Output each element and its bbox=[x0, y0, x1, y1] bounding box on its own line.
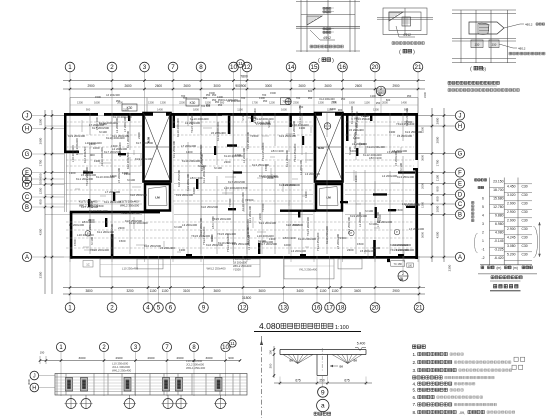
svg-text:250: 250 bbox=[475, 43, 480, 47]
svg-text:8.: 8. bbox=[413, 410, 417, 415]
detail 3 hatched core bbox=[478, 23, 489, 34]
svg-text:Y1500: Y1500 bbox=[228, 198, 232, 207]
svg-text:3: 3 bbox=[143, 64, 147, 71]
table storey numbers bbox=[475, 179, 487, 181]
svg-text:6.980: 6.980 bbox=[495, 222, 504, 226]
svg-text:1300: 1300 bbox=[389, 130, 396, 134]
svg-text:A: A bbox=[25, 255, 29, 261]
svg-text:KL1 200x400: KL1 200x400 bbox=[285, 150, 289, 167]
svg-text:h=100: h=100 bbox=[365, 209, 374, 213]
svg-text:900: 900 bbox=[90, 153, 95, 157]
bottom dimension lines bbox=[63, 287, 425, 289]
svg-text:700: 700 bbox=[296, 96, 301, 100]
svg-text:1.: 1. bbox=[413, 352, 417, 357]
bottom axis bubbles bbox=[65, 303, 75, 313]
svg-text:1500: 1500 bbox=[241, 186, 248, 190]
svg-text:5.: 5. bbox=[413, 388, 417, 393]
svg-text:1:100: 1:100 bbox=[335, 325, 349, 331]
detail 1 caption bbox=[310, 45, 343, 48]
svg-text:1000: 1000 bbox=[284, 243, 291, 247]
svg-text:1300: 1300 bbox=[421, 202, 425, 208]
svg-text:8: 8 bbox=[199, 64, 203, 71]
svg-text:1C: 1C bbox=[86, 263, 89, 267]
perimeter wall right bbox=[415, 113, 418, 160]
svg-text:12: 12 bbox=[244, 64, 251, 71]
svg-text:KL10 200x400: KL10 200x400 bbox=[393, 243, 411, 247]
svg-text:800: 800 bbox=[436, 186, 440, 191]
svg-text:h=100: h=100 bbox=[127, 178, 136, 182]
svg-text:Y1500: Y1500 bbox=[261, 203, 265, 212]
svg-text:3100: 3100 bbox=[183, 289, 190, 293]
svg-text:L3 200x400: L3 200x400 bbox=[182, 223, 198, 227]
svg-text:5: 5 bbox=[482, 205, 484, 209]
T detail axis bubble 9 bbox=[321, 376, 323, 387]
svg-text:9: 9 bbox=[202, 305, 206, 312]
svg-text:1300: 1300 bbox=[373, 108, 379, 112]
svg-text:3800: 3800 bbox=[85, 289, 92, 293]
svg-text:4.245: 4.245 bbox=[507, 236, 516, 240]
svg-text:LB h=100: LB h=100 bbox=[271, 149, 284, 153]
svg-text:KL10 200x400: KL10 200x400 bbox=[113, 115, 132, 119]
section symbol in right core bbox=[324, 123, 331, 130]
svg-text:2600: 2600 bbox=[298, 84, 305, 88]
perimeter wall top bbox=[64, 113, 98, 116]
svg-text:350: 350 bbox=[218, 103, 223, 107]
detail 3 beam shape bbox=[469, 22, 504, 34]
svg-text:16: 16 bbox=[314, 305, 321, 312]
left stair core bbox=[144, 113, 171, 182]
svg-text:1: 1 bbox=[68, 64, 72, 71]
svg-text:350: 350 bbox=[206, 103, 211, 107]
detail 3 leaders bbox=[504, 24, 524, 28]
svg-text:7: 7 bbox=[171, 64, 175, 71]
svg-text:J: J bbox=[33, 374, 36, 380]
axis bubble 11 bbox=[237, 60, 245, 68]
svg-text:2600: 2600 bbox=[39, 137, 43, 144]
balcony below A right bbox=[338, 259, 362, 269]
svg-text:2300: 2300 bbox=[293, 101, 299, 105]
svg-text:300: 300 bbox=[269, 363, 273, 368]
svg-text:21: 21 bbox=[415, 64, 422, 71]
svg-text:2: 2 bbox=[402, 272, 404, 276]
svg-text:KL2 200x500: KL2 200x500 bbox=[353, 132, 357, 149]
svg-text:LB h=100: LB h=100 bbox=[283, 236, 296, 240]
box 7040 bbox=[281, 98, 291, 105]
table footer bbox=[480, 264, 532, 266]
svg-text:4Φ12: 4Φ12 bbox=[323, 36, 331, 40]
svg-text:17: 17 bbox=[326, 305, 333, 312]
svg-text:KL2 200x500: KL2 200x500 bbox=[83, 146, 87, 163]
svg-text:Y1500: Y1500 bbox=[250, 134, 259, 138]
svg-text:-3.225: -3.225 bbox=[494, 247, 504, 251]
svg-text:Φ8: Φ8 bbox=[289, 359, 293, 363]
svg-text:KL10 200x400: KL10 200x400 bbox=[298, 237, 316, 241]
svg-text:KL6 250x500: KL6 250x500 bbox=[130, 193, 147, 197]
svg-text:C30: C30 bbox=[521, 210, 527, 214]
svg-text:1100: 1100 bbox=[436, 174, 440, 181]
svg-text:18: 18 bbox=[338, 305, 345, 312]
annotation box K30 bbox=[122, 104, 137, 111]
svg-text:1500: 1500 bbox=[73, 239, 77, 246]
svg-text:100: 100 bbox=[269, 350, 273, 355]
svg-text:2600: 2600 bbox=[148, 356, 155, 360]
beam label double rows bbox=[79, 200, 140, 208]
svg-text:KL12 200x400: KL12 200x400 bbox=[121, 211, 140, 215]
svg-text:4200: 4200 bbox=[39, 228, 43, 235]
T detail stem bbox=[316, 355, 318, 376]
balcony below A mid bbox=[284, 259, 334, 279]
upper boundary line bbox=[70, 97, 418, 99]
svg-text:350: 350 bbox=[212, 93, 217, 97]
svg-text:KL1 200x400: KL1 200x400 bbox=[76, 177, 93, 181]
svg-text:180: 180 bbox=[408, 264, 413, 267]
svg-text:700: 700 bbox=[181, 94, 186, 98]
svg-text:20: 20 bbox=[372, 64, 379, 71]
svg-text:12: 12 bbox=[240, 305, 247, 312]
svg-text:2600: 2600 bbox=[355, 84, 362, 88]
svg-text:L5 200x400: L5 200x400 bbox=[211, 131, 226, 135]
svg-text:H: H bbox=[32, 386, 36, 392]
svg-text:L7 200x400: L7 200x400 bbox=[409, 227, 425, 231]
bottom axis stems bbox=[70, 256, 419, 303]
svg-text:4200: 4200 bbox=[436, 231, 440, 238]
svg-text:21: 21 bbox=[416, 305, 423, 312]
svg-text:YKL3 250x400: YKL3 250x400 bbox=[293, 143, 297, 162]
svg-text:KL10 200x400: KL10 200x400 bbox=[199, 145, 203, 163]
below A boxes right bbox=[391, 261, 405, 267]
svg-text:6: 6 bbox=[482, 196, 484, 200]
svg-text:250: 250 bbox=[299, 105, 304, 109]
svg-text:1300: 1300 bbox=[186, 150, 193, 154]
svg-text:4: 4 bbox=[482, 213, 484, 217]
svg-text:600: 600 bbox=[308, 89, 313, 93]
svg-text:2200: 2200 bbox=[179, 101, 185, 105]
notes end boxes bbox=[514, 357, 518, 361]
svg-text:G: G bbox=[25, 152, 30, 158]
svg-text:F: F bbox=[25, 171, 29, 177]
svg-text:7C 180: 7C 180 bbox=[394, 262, 403, 266]
svg-text:2: 2 bbox=[482, 230, 484, 234]
svg-text:7040: 7040 bbox=[282, 101, 288, 104]
right lift shaft bbox=[316, 184, 342, 211]
inner top dimension band bbox=[77, 101, 407, 105]
svg-text:3600: 3600 bbox=[213, 289, 220, 293]
svg-text:L2 200x400: L2 200x400 bbox=[299, 159, 303, 175]
svg-text:KL12 200x400: KL12 200x400 bbox=[89, 209, 108, 213]
svg-text:-0.145: -0.145 bbox=[494, 239, 504, 243]
notes under detail 3 bbox=[448, 81, 499, 84]
svg-text:2900: 2900 bbox=[436, 117, 440, 124]
svg-text:L10 200x400: L10 200x400 bbox=[71, 145, 75, 162]
svg-text:700: 700 bbox=[241, 96, 246, 100]
svg-text:1250: 1250 bbox=[39, 187, 43, 194]
svg-text:3600: 3600 bbox=[258, 289, 265, 293]
svg-text:KL9 200x400: KL9 200x400 bbox=[176, 193, 193, 197]
svg-text:KL10 200x400: KL10 200x400 bbox=[350, 106, 354, 124]
svg-text:h=100: h=100 bbox=[258, 239, 266, 243]
svg-text:G: G bbox=[458, 152, 463, 158]
svg-text:11: 11 bbox=[230, 341, 235, 346]
detail name circle a bbox=[317, 399, 329, 411]
top axis grid lines bbox=[70, 72, 418, 262]
svg-text:600: 600 bbox=[381, 91, 386, 95]
room callout circles bbox=[85, 231, 90, 236]
section mark right top bbox=[376, 86, 386, 96]
svg-text:2: 2 bbox=[380, 87, 382, 91]
svg-text:5.200: 5.200 bbox=[507, 253, 516, 257]
svg-text:-09,: -09, bbox=[459, 411, 465, 415]
svg-text:2900: 2900 bbox=[116, 356, 123, 360]
svg-text:-6.420: -6.420 bbox=[494, 256, 504, 260]
svg-text:2300: 2300 bbox=[258, 213, 262, 220]
svg-text:1300: 1300 bbox=[77, 101, 83, 105]
svg-text:3.020: 3.020 bbox=[507, 193, 516, 197]
svg-text:YKL5 250x400: YKL5 250x400 bbox=[233, 257, 251, 261]
svg-text:20: 20 bbox=[372, 305, 379, 312]
svg-text:2000: 2000 bbox=[421, 183, 425, 189]
top axis bubbles bbox=[65, 62, 75, 72]
svg-text:KL10 200x400: KL10 200x400 bbox=[218, 241, 236, 245]
svg-text:1500: 1500 bbox=[357, 242, 364, 246]
dense label cluster below A bbox=[233, 257, 252, 272]
svg-text:K30: K30 bbox=[190, 101, 196, 105]
svg-text:F: F bbox=[458, 171, 462, 177]
svg-text:h=100: h=100 bbox=[267, 120, 271, 128]
svg-text:2.900: 2.900 bbox=[507, 227, 516, 231]
svg-text:2.900: 2.900 bbox=[507, 210, 516, 214]
svg-text:KL10 200x400: KL10 200x400 bbox=[176, 118, 180, 137]
svg-text:12.780: 12.780 bbox=[493, 205, 503, 209]
svg-text:900: 900 bbox=[86, 108, 91, 112]
svg-text:3400: 3400 bbox=[354, 289, 361, 293]
svg-text:L3 200x400: L3 200x400 bbox=[292, 120, 296, 136]
strip left axis J H bbox=[30, 371, 39, 380]
svg-text:6.: 6. bbox=[413, 395, 417, 400]
svg-text:1200: 1200 bbox=[269, 101, 275, 105]
svg-text:2600: 2600 bbox=[155, 84, 162, 88]
svg-text:3600: 3600 bbox=[421, 155, 425, 161]
svg-text:14: 14 bbox=[288, 64, 295, 71]
svg-text:1300: 1300 bbox=[94, 159, 101, 163]
core top door gap left bbox=[153, 113, 166, 116]
svg-text:15: 15 bbox=[311, 64, 318, 71]
svg-text:3000: 3000 bbox=[213, 84, 220, 88]
svg-text:J: J bbox=[459, 114, 462, 120]
svg-text:KL1 200x400: KL1 200x400 bbox=[97, 230, 114, 234]
svg-text:KL7 200x500: KL7 200x500 bbox=[228, 180, 245, 184]
svg-text:KL6 250x500: KL6 250x500 bbox=[201, 205, 218, 209]
svg-text:4.: 4. bbox=[413, 381, 417, 386]
svg-text:1300: 1300 bbox=[299, 126, 306, 130]
svg-text:3000: 3000 bbox=[265, 84, 272, 88]
svg-text:L3 200x400: L3 200x400 bbox=[115, 117, 119, 133]
svg-text:h=100: h=100 bbox=[99, 130, 107, 134]
svg-text:(m): (m) bbox=[513, 266, 518, 270]
svg-text:WKL2 350x500: WKL2 350x500 bbox=[120, 204, 140, 208]
svg-text:550: 550 bbox=[39, 179, 43, 184]
detail drawing 1 frame bbox=[296, 0, 360, 52]
T detail center leader bbox=[330, 365, 338, 367]
detail 1 rebar labels bbox=[323, 7, 331, 9]
table caption line 2 bbox=[494, 285, 519, 288]
svg-text:7800: 7800 bbox=[240, 75, 248, 79]
interior partition lines bbox=[90, 113, 403, 254]
svg-text:E: E bbox=[458, 182, 462, 188]
svg-text:KL2 200x500: KL2 200x500 bbox=[262, 175, 279, 179]
svg-text:L7 200x400: L7 200x400 bbox=[181, 144, 197, 148]
svg-text:KL2 200x500: KL2 200x500 bbox=[126, 152, 130, 169]
horizontal axis lines bbox=[45, 116, 455, 258]
svg-text:L7 200x400: L7 200x400 bbox=[376, 211, 380, 227]
svg-text:KL9 200x400: KL9 200x400 bbox=[135, 157, 152, 161]
perimeter wall left lower bbox=[70, 212, 73, 259]
svg-text:KL4 200x400: KL4 200x400 bbox=[222, 98, 238, 102]
svg-text:2350: 2350 bbox=[39, 271, 43, 278]
svg-text:4: 4 bbox=[146, 305, 150, 312]
svg-text:5: 5 bbox=[157, 305, 161, 312]
svg-text:350: 350 bbox=[308, 96, 313, 100]
svg-text:675: 675 bbox=[344, 379, 350, 383]
detail drawing 3 frame bbox=[452, 10, 516, 63]
svg-text:18.700: 18.700 bbox=[493, 188, 503, 192]
svg-text:WKL2 250x400: WKL2 250x400 bbox=[112, 369, 132, 373]
svg-text:1100: 1100 bbox=[332, 289, 339, 293]
svg-text:900: 900 bbox=[241, 84, 247, 88]
svg-text:1000: 1000 bbox=[93, 146, 100, 150]
svg-text:1300: 1300 bbox=[160, 101, 166, 105]
svg-text:C30: C30 bbox=[521, 236, 527, 240]
section mark right bottom bbox=[398, 271, 408, 281]
svg-text:700: 700 bbox=[262, 93, 267, 97]
svg-text:900: 900 bbox=[338, 108, 343, 112]
svg-text:LM: LM bbox=[155, 196, 160, 200]
svg-text:16: 16 bbox=[339, 64, 346, 71]
svg-text:5.400: 5.400 bbox=[357, 342, 366, 346]
svg-text:2300: 2300 bbox=[224, 160, 231, 164]
svg-text:KL3 250x400: KL3 250x400 bbox=[172, 141, 176, 158]
svg-text:KL6 250x500: KL6 250x500 bbox=[286, 223, 303, 227]
upper band extra annotations bbox=[95, 89, 412, 112]
svg-text:1500: 1500 bbox=[95, 95, 101, 99]
svg-text:h=100: h=100 bbox=[372, 246, 381, 250]
svg-text:900: 900 bbox=[404, 108, 409, 112]
svg-text:1300: 1300 bbox=[370, 94, 376, 98]
svg-text:L10 200x400: L10 200x400 bbox=[224, 186, 241, 190]
left dimension column bbox=[44, 110, 46, 294]
perimeter wall left upper bbox=[64, 113, 67, 153]
svg-text:2900: 2900 bbox=[392, 84, 399, 88]
svg-text:13: 13 bbox=[280, 305, 287, 312]
notes block header bbox=[413, 345, 426, 348]
svg-text:2600: 2600 bbox=[177, 356, 184, 360]
svg-text:2300: 2300 bbox=[347, 248, 354, 252]
svg-text:1300: 1300 bbox=[148, 101, 154, 105]
svg-text:10: 10 bbox=[222, 345, 229, 351]
detail 2 haunch wedge bbox=[389, 12, 403, 21]
svg-text:H: H bbox=[25, 127, 29, 133]
svg-text:J: J bbox=[26, 114, 29, 120]
svg-text:YKL5 200x400: YKL5 200x400 bbox=[212, 217, 231, 221]
svg-text:1300: 1300 bbox=[304, 191, 308, 198]
svg-text:YKL3 250x400: YKL3 250x400 bbox=[299, 268, 318, 272]
svg-text:L10 200x400: L10 200x400 bbox=[75, 138, 79, 155]
svg-text:L10 200x400: L10 200x400 bbox=[402, 202, 419, 206]
detail drawing 2 frame bbox=[383, 8, 427, 35]
detail 2 leader and caption bbox=[396, 26, 415, 37]
svg-text:L3 200x400: L3 200x400 bbox=[305, 172, 321, 176]
svg-text:C30: C30 bbox=[521, 244, 527, 248]
dense cluster annotations bbox=[83, 106, 415, 252]
svg-text:1400: 1400 bbox=[157, 108, 163, 112]
svg-text:2600: 2600 bbox=[124, 84, 131, 88]
svg-text:KL6 250x500: KL6 250x500 bbox=[144, 244, 161, 248]
svg-text:L5 200x400: L5 200x400 bbox=[336, 233, 340, 249]
svg-text:L5 200x400: L5 200x400 bbox=[349, 128, 364, 132]
svg-text:KL10 200x400: KL10 200x400 bbox=[106, 136, 125, 140]
svg-text:2300: 2300 bbox=[137, 132, 141, 139]
svg-text:1900: 1900 bbox=[349, 101, 355, 105]
svg-text:(m): (m) bbox=[497, 266, 502, 270]
strip dimension line bbox=[40, 360, 240, 362]
svg-text:1300: 1300 bbox=[318, 101, 324, 105]
svg-text:3): 3) bbox=[482, 67, 486, 72]
svg-text:KL1 200x400: KL1 200x400 bbox=[104, 200, 121, 204]
strip body bbox=[55, 374, 247, 396]
svg-text:WKL2 250x400: WKL2 250x400 bbox=[233, 264, 252, 268]
inner second dim band bbox=[86, 108, 409, 112]
svg-text:B: B bbox=[25, 205, 29, 211]
svg-text:2600: 2600 bbox=[183, 84, 190, 88]
svg-text:7.: 7. bbox=[413, 402, 417, 407]
table caption line 1 bbox=[491, 276, 522, 279]
svg-text:1300: 1300 bbox=[122, 171, 129, 175]
svg-text:1500: 1500 bbox=[119, 239, 126, 243]
strip pile symbols bbox=[70, 395, 72, 409]
svg-text:WKL1 250x400: WKL1 250x400 bbox=[186, 366, 206, 370]
svg-text:1750: 1750 bbox=[39, 159, 43, 166]
svg-text:2: 2 bbox=[110, 64, 114, 71]
svg-text:h=100: h=100 bbox=[198, 164, 206, 168]
svg-text:1000: 1000 bbox=[436, 205, 440, 212]
T detail right rebar fan bbox=[332, 355, 362, 364]
left lift shaft bbox=[145, 184, 170, 211]
svg-text:900: 900 bbox=[83, 169, 88, 173]
svg-text:1100: 1100 bbox=[364, 101, 370, 105]
svg-text:L10 250x460: L10 250x460 bbox=[122, 267, 139, 271]
svg-text:4.450: 4.450 bbox=[507, 185, 516, 189]
svg-text:2.900: 2.900 bbox=[507, 219, 516, 223]
T detail left rebar fan bbox=[283, 355, 313, 364]
svg-text:C30: C30 bbox=[521, 193, 527, 197]
right stair core bbox=[315, 113, 343, 182]
left axis bubbles bbox=[22, 111, 31, 120]
svg-text:L5 200x400: L5 200x400 bbox=[117, 167, 121, 183]
svg-text:2000: 2000 bbox=[436, 136, 440, 143]
svg-text:Φ8: Φ8 bbox=[339, 364, 343, 368]
svg-text:950: 950 bbox=[39, 199, 43, 204]
svg-text:KL10 200x400: KL10 200x400 bbox=[325, 226, 329, 244]
svg-text:1300: 1300 bbox=[179, 248, 186, 252]
svg-text:P: P bbox=[351, 231, 353, 235]
svg-text:H: H bbox=[458, 124, 462, 130]
svg-text:6: 6 bbox=[169, 305, 173, 312]
svg-text:15.680: 15.680 bbox=[493, 196, 503, 200]
svg-text:C30: C30 bbox=[521, 185, 527, 189]
svg-text:1500: 1500 bbox=[270, 91, 276, 95]
svg-text:L10 200x400: L10 200x400 bbox=[85, 141, 102, 145]
svg-text:-2: -2 bbox=[481, 256, 484, 260]
svg-text:250: 250 bbox=[492, 43, 497, 47]
